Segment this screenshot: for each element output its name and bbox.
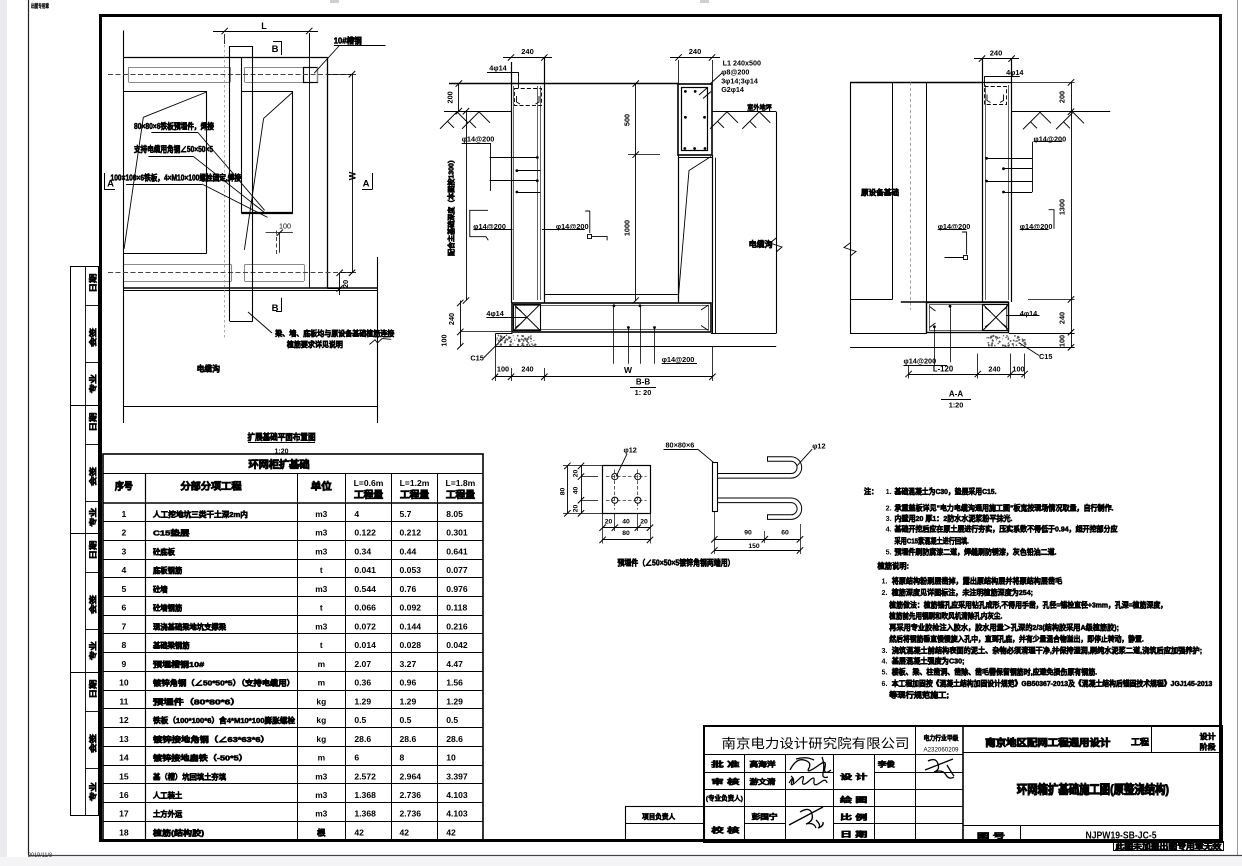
svg-text:支持电缆用角钢∠50×50×5: 支持电缆用角钢∠50×50×5 <box>133 144 213 154</box>
old foundation bottom <box>850 299 892 301</box>
svg-text:会签: 会签 <box>87 327 97 347</box>
svg-text:kg: kg <box>316 715 326 725</box>
hole phi12 <box>612 474 618 480</box>
ground line left <box>444 111 511 113</box>
svg-text:2.572: 2.572 <box>354 771 376 781</box>
hole phi12 <box>612 497 618 503</box>
svg-text:基（槽）坑回填土夯填: 基（槽）坑回填土夯填 <box>152 771 226 781</box>
trench wall inner line <box>715 158 717 334</box>
svg-text:基础梁钢筋: 基础梁钢筋 <box>152 640 190 650</box>
svg-text:0.072: 0.072 <box>354 621 376 631</box>
dimension 100 (plan) <box>266 232 293 234</box>
svg-text:17: 17 <box>119 809 129 819</box>
svg-text:日期: 日期 <box>87 679 97 699</box>
svg-text:0.641: 0.641 <box>446 546 468 556</box>
svg-text:将原结构粉刷层凿掉，露出原结构层并将原结构层凿毛: 将原结构粉刷层凿掉，露出原结构层并将原结构层凿毛 <box>892 575 1063 585</box>
svg-text:植筋要求详见说明: 植筋要求详见说明 <box>286 340 343 349</box>
svg-text:1.29: 1.29 <box>354 696 371 706</box>
ground line right <box>712 111 776 113</box>
left wall <box>511 62 513 303</box>
ground line right <box>1012 111 1111 113</box>
svg-text:0.092: 0.092 <box>400 603 422 613</box>
svg-text:m3: m3 <box>315 546 327 556</box>
right wall below beam <box>678 155 680 303</box>
top anchor bar with hook <box>717 457 801 478</box>
svg-text:90: 90 <box>744 529 752 536</box>
svg-text:采用C15素混凝土进行回填.: 采用C15素混凝土进行回填. <box>894 535 969 545</box>
sig design <box>925 759 954 778</box>
svg-text:28.6: 28.6 <box>354 734 371 744</box>
svg-text:日期: 日期 <box>87 412 97 432</box>
svg-text:李俊: 李俊 <box>877 760 896 769</box>
svg-text:0.014: 0.014 <box>354 640 376 650</box>
svg-text:13: 13 <box>119 734 129 744</box>
channel steel end plate (black) <box>304 68 318 83</box>
svg-text:比 例: 比 例 <box>840 813 867 822</box>
svg-text:4: 4 <box>122 565 127 575</box>
wall top line <box>449 83 679 85</box>
svg-text:80: 80 <box>560 488 567 496</box>
svg-text:9: 9 <box>122 659 127 669</box>
svg-text:电缆沟: 电缆沟 <box>197 363 221 373</box>
base slab B-B <box>512 303 711 332</box>
bar bend mark <box>585 211 607 240</box>
svg-text:0.301: 0.301 <box>446 528 468 538</box>
svg-text:5: 5 <box>122 584 127 594</box>
svg-text:20: 20 <box>605 519 613 526</box>
inner wall line right <box>309 33 311 289</box>
svg-text:基础开挖后应在原土层进行夯实，压实系数不得低于0.94，超开: 基础开挖后应在原土层进行夯实，压实系数不得低于0.94，超开挖部分应 <box>894 524 1118 534</box>
support angle steel (thick) <box>241 212 293 214</box>
svg-text:L: L <box>261 21 267 31</box>
page left gray strip <box>0 0 7 866</box>
dims 240/100 left of base <box>460 301 462 347</box>
svg-text:植筋做法：植筋锚孔应采用钻孔成形,不得用手凿，孔径=锚栓直径: 植筋做法：植筋锚孔应采用钻孔成形,不得用手凿，孔径=锚栓直径+3mm，孔深=植筋… <box>888 600 1167 610</box>
beam section X-box A-A <box>983 305 1009 331</box>
dimension W (right) <box>352 74 354 273</box>
svg-text:1: 20: 1: 20 <box>635 388 652 397</box>
svg-text:工程量: 工程量 <box>446 489 476 500</box>
svg-text:0.544: 0.544 <box>354 584 376 594</box>
svg-text:1.29: 1.29 <box>400 696 417 706</box>
svg-text:1.: 1. <box>882 576 888 585</box>
svg-text:原设备基础: 原设备基础 <box>861 187 899 197</box>
svg-text:200: 200 <box>1058 91 1067 103</box>
svg-text:1:20: 1:20 <box>949 401 964 410</box>
svg-text:φ14@200: φ14@200 <box>904 357 937 366</box>
svg-text:4φ14: 4φ14 <box>489 64 507 73</box>
sign-off column <box>71 267 99 816</box>
bottom wall centerline <box>108 272 351 274</box>
svg-text:240: 240 <box>988 364 1000 373</box>
svg-text:南京地区配网工程通用设计: 南京地区配网工程通用设计 <box>985 736 1110 749</box>
channel inner end line <box>317 67 319 82</box>
svg-text:5.7: 5.7 <box>400 509 412 519</box>
svg-text:3.397: 3.397 <box>446 771 468 781</box>
svg-text:6: 6 <box>354 753 359 763</box>
svg-text:8.05: 8.05 <box>446 509 463 519</box>
back wall bottom seen through opening <box>544 294 677 296</box>
beam section X-box <box>514 305 541 331</box>
svg-text:扩展基础平面布置图: 扩展基础平面布置图 <box>248 432 316 442</box>
svg-text:镀锌接地扁铁（-50*5）: 镀锌接地扁铁（-50*5） <box>153 753 248 763</box>
svg-text:4.103: 4.103 <box>446 790 468 800</box>
svg-text:0.34: 0.34 <box>354 546 371 556</box>
svg-text:C15: C15 <box>470 354 483 363</box>
dim 1300 <box>1071 112 1073 300</box>
svg-text:L=1.2m: L=1.2m <box>400 478 430 488</box>
svg-text:L=1.8m: L=1.8m <box>445 478 475 488</box>
svg-text:工程量: 工程量 <box>400 489 430 500</box>
svg-text:分部分项工程: 分部分项工程 <box>181 481 242 493</box>
svg-text:0.212: 0.212 <box>400 528 422 538</box>
beam L1 section <box>678 84 712 155</box>
svg-text:楼板、梁、柱凿洞、凿除、凿毛需保留钢筋时,应避免损伤原有钢筋: 楼板、梁、柱凿洞、凿除、凿毛需保留钢筋时,应避免损伤原有钢筋. <box>892 667 1097 677</box>
svg-text:室外地坪: 室外地坪 <box>747 103 772 112</box>
svg-text:植筋说明:: 植筋说明: <box>876 562 909 571</box>
hole phi12 <box>635 474 641 480</box>
svg-text:游文清: 游文清 <box>750 777 776 786</box>
beam inner segment top band <box>241 58 243 91</box>
svg-text:240: 240 <box>521 365 533 374</box>
svg-text:彭国宁: 彭国宁 <box>752 812 778 821</box>
dim 200 right <box>1071 82 1073 111</box>
top line <box>850 82 982 84</box>
svg-text:1.: 1. <box>886 487 892 496</box>
svg-text:4φ14: 4φ14 <box>1006 68 1024 77</box>
svg-text:预埋槽钢10#: 预埋槽钢10# <box>153 659 205 669</box>
svg-text:20: 20 <box>640 519 648 526</box>
svg-text:3.: 3. <box>882 646 888 655</box>
svg-text:2.736: 2.736 <box>400 809 422 819</box>
svg-text:240: 240 <box>1058 312 1067 324</box>
svg-text:会签: 会签 <box>87 733 97 753</box>
svg-text:42: 42 <box>446 827 456 837</box>
svg-text:12: 12 <box>119 715 129 725</box>
svg-text:C15: C15 <box>1039 352 1052 361</box>
svg-text:图 号: 图 号 <box>977 831 1005 840</box>
dim line 1300 depth <box>466 111 468 300</box>
svg-text:0.96: 0.96 <box>400 678 417 688</box>
svg-text:内壁用20 厚1：2防水水泥浆粉平抹光.: 内壁用20 厚1：2防水水泥浆粉平抹光. <box>895 513 1013 523</box>
svg-text:G2φ14: G2φ14 <box>721 85 744 94</box>
svg-text:240: 240 <box>447 313 456 325</box>
dims 240/100 right <box>1071 299 1073 347</box>
svg-text:20: 20 <box>341 280 350 288</box>
main divider <box>962 727 964 842</box>
svg-text:m: m <box>318 678 325 688</box>
svg-text:专业: 专业 <box>87 507 97 527</box>
svg-text:80×80×6: 80×80×6 <box>666 441 695 450</box>
plate dims left <box>581 466 583 513</box>
svg-text:日 期: 日 期 <box>840 830 867 839</box>
svg-text:植筋(结构胶): 植筋(结构胶) <box>152 827 205 837</box>
new wall A-A <box>982 59 984 302</box>
break mark old fnd <box>844 243 856 256</box>
svg-text:42: 42 <box>400 827 410 837</box>
dimension 20 (bottom-right) <box>337 285 343 291</box>
top wall centerline <box>108 74 351 76</box>
svg-text:L=0.6m: L=0.6m <box>354 478 384 488</box>
trench left wall line <box>123 31 125 424</box>
trench right wall line <box>377 257 379 423</box>
svg-text:环网箱扩基础施工图(原整浇结构): 环网箱扩基础施工图(原整浇结构) <box>1017 783 1169 797</box>
svg-text:预埋件（80*80*6）: 预埋件（80*80*6） <box>153 696 241 706</box>
anchorage dashed box <box>515 89 542 106</box>
svg-text:L1 240x500: L1 240x500 <box>723 59 761 68</box>
svg-text:3: 3 <box>122 546 127 556</box>
hook ticks <box>985 308 1007 328</box>
sig check <box>789 807 823 828</box>
svg-text:砼墙钢筋: 砼墙钢筋 <box>153 603 183 613</box>
svg-text:φ12: φ12 <box>624 446 637 455</box>
svg-text:42: 42 <box>354 827 364 837</box>
svg-text:4.: 4. <box>882 657 888 666</box>
bracket <box>470 210 489 240</box>
svg-text:然后将钢筋垂直慢慢旋入孔中，直到孔底，并有少量混合物溢出，即: 然后将钢筋垂直慢慢旋入孔中，直到孔底，并有少量混合物溢出，即停止转动，静置. <box>889 634 1144 644</box>
svg-text:设计: 设计 <box>1200 731 1216 741</box>
svg-text:4: 4 <box>354 509 359 519</box>
svg-text:11: 11 <box>119 696 128 706</box>
svg-text:会签: 会签 <box>87 466 97 486</box>
svg-text:W: W <box>624 365 633 375</box>
svg-text:0.5: 0.5 <box>446 715 458 725</box>
svg-text:m3: m3 <box>315 528 327 538</box>
svg-text:此图未加盖出图专用章无效: 此图未加盖出图专用章无效 <box>1115 842 1222 851</box>
svg-text:镀锌接地角钢（∠63*63*6）: 镀锌接地角钢（∠63*63*6） <box>153 734 270 744</box>
inner pit edge (right region) <box>242 91 293 93</box>
svg-text:15: 15 <box>119 771 129 781</box>
svg-text:0.053: 0.053 <box>400 565 422 575</box>
svg-text:A-A: A-A <box>949 390 963 399</box>
svg-text:B-B: B-B <box>636 378 650 387</box>
svg-text:100×100×6铁板，4×M10×100螺栓固定,焊接: 100×100×6铁板，4×M10×100螺栓固定,焊接 <box>111 173 242 183</box>
svg-text:底板钢筋: 底板钢筋 <box>153 565 183 575</box>
svg-text:2.736: 2.736 <box>400 790 422 800</box>
sig review <box>789 776 827 785</box>
trench bottom line <box>123 406 377 408</box>
svg-text:2: 2 <box>122 528 127 538</box>
svg-text:4φ14: 4φ14 <box>1020 309 1038 318</box>
svg-text:40: 40 <box>622 519 630 526</box>
fold/break lines left <box>143 92 206 117</box>
svg-text:2.964: 2.964 <box>400 771 422 781</box>
svg-text:φ12: φ12 <box>812 442 825 451</box>
section B cut dashed line <box>224 40 226 340</box>
svg-text:0.36: 0.36 <box>354 678 371 688</box>
svg-text:t: t <box>320 565 323 575</box>
svg-text:B: B <box>272 303 279 314</box>
svg-text:(专业负责人): (专业负责人) <box>706 794 743 803</box>
svg-text:再采用专业胶枪注入胶水，胶水用量＞孔深的2/3(结构胶采用A: 再采用专业胶枪注入胶水，胶水用量＞孔深的2/3(结构胶采用A级植筋胶); <box>889 622 1119 632</box>
svg-text:日期: 日期 <box>87 273 97 293</box>
pit rebar leaders <box>949 305 952 308</box>
sig approve <box>790 757 831 778</box>
embedded part detail: plate face view <box>603 466 651 514</box>
dim 500/1000 <box>635 84 637 301</box>
svg-text:预埋件刷防腐漆二道，焊缝刷防锈漆，灰色铅油二道.: 预埋件刷防腐漆二道，焊缝刷防锈漆，灰色铅油二道. <box>895 547 1057 557</box>
channel steel top band (grey) <box>129 67 230 69</box>
svg-text:注：: 注： <box>864 487 878 496</box>
svg-text:南京电力设计研究院有限公司: 南京电力设计研究院有限公司 <box>722 736 910 751</box>
dashed centerlines through holes <box>606 476 647 478</box>
svg-text:4.103: 4.103 <box>446 809 468 819</box>
bolt centerline dashed <box>276 231 278 255</box>
svg-text:0.76: 0.76 <box>400 584 417 594</box>
svg-text:240: 240 <box>689 47 702 56</box>
svg-text:NJPW19-SB-JC-5: NJPW19-SB-JC-5 <box>1086 830 1157 841</box>
company row <box>705 754 963 756</box>
svg-text:浇筑混凝土前结构表面的泥土、杂物必须清理干净,并保持湿润,刷: 浇筑混凝土前结构表面的泥土、杂物必须清理干净,并保持湿润,刷纯水泥浆二道,浇筑后… <box>892 645 1202 655</box>
dim 200 left <box>458 84 460 112</box>
svg-text:环网柜扩基础: 环网柜扩基础 <box>249 458 310 471</box>
svg-text:0.028: 0.028 <box>400 640 422 650</box>
svg-text:2.: 2. <box>886 503 892 512</box>
C15 bed <box>496 333 513 335</box>
svg-text:绘 图: 绘 图 <box>840 795 867 804</box>
svg-text:100: 100 <box>279 222 291 231</box>
svg-text:m3: m3 <box>315 771 327 781</box>
paper right edge <box>1237 0 1239 856</box>
svg-text:配合主基础深度（本图按1300）: 配合主基础深度（本图按1300） <box>447 156 456 256</box>
svg-text:B: B <box>272 44 279 55</box>
plate dims bottom <box>603 527 650 529</box>
svg-text:梁、墙、底板均与原设备基础植筋连接: 梁、墙、底板均与原设备基础植筋连接 <box>274 329 395 338</box>
title block <box>704 726 1222 842</box>
svg-text:0.976: 0.976 <box>446 584 468 594</box>
svg-text:1.368: 1.368 <box>354 809 376 819</box>
svg-text:8: 8 <box>122 640 127 650</box>
dimension L (top) <box>213 31 318 33</box>
svg-text:A: A <box>363 179 370 190</box>
svg-text:28.6: 28.6 <box>446 734 463 744</box>
svg-text:0.144: 0.144 <box>400 621 422 631</box>
svg-text:φ14@200: φ14@200 <box>662 355 695 364</box>
svg-text:1300: 1300 <box>1058 199 1067 215</box>
paper left edge <box>28 0 30 856</box>
svg-text:砼墙: 砼墙 <box>153 584 168 594</box>
svg-text:日期: 日期 <box>87 540 97 560</box>
svg-text:100: 100 <box>1058 335 1067 347</box>
svg-text:100: 100 <box>440 334 449 346</box>
svg-text:m3: m3 <box>315 790 327 800</box>
svg-text:0.216: 0.216 <box>446 621 468 631</box>
svg-text:16: 16 <box>119 790 129 800</box>
svg-text:6.: 6. <box>882 679 888 688</box>
svg-text:t: t <box>320 603 323 613</box>
svg-text:电力行业甲级: 电力行业甲级 <box>924 733 960 742</box>
embedded part side view: plate <box>713 463 718 512</box>
svg-text:会签: 会签 <box>87 594 97 614</box>
svg-text:1.368: 1.368 <box>354 790 376 800</box>
bottom dims L-120/240/100 <box>909 374 1025 376</box>
dim 240 top <box>974 58 1019 60</box>
svg-text:40: 40 <box>573 487 580 495</box>
svg-text:人工挖地坑三类干土深2m内: 人工挖地坑三类干土深2m内 <box>153 509 248 519</box>
svg-text:现浇基础梁地坑支撑梁: 现浇基础梁地坑支撑梁 <box>153 621 226 631</box>
svg-text:C15垫层: C15垫层 <box>153 528 190 538</box>
svg-text:200: 200 <box>446 91 455 103</box>
anchorage dashed box <box>985 87 1007 105</box>
svg-text:镀锌角钢（∠50*50*5）（支持电缆用）: 镀锌角钢（∠50*50*5）（支持电缆用） <box>153 678 295 688</box>
svg-text:工程: 工程 <box>1131 736 1149 747</box>
C15 speckle A-A <box>986 335 1026 348</box>
foundation beam strip <box>229 46 231 321</box>
svg-text:5.: 5. <box>886 548 892 557</box>
svg-text:28.6: 28.6 <box>400 734 417 744</box>
svg-text:专业: 专业 <box>87 782 97 802</box>
svg-text:植筋前先用钢刷和吹风机清除孔内灰尘.: 植筋前先用钢刷和吹风机清除孔内灰尘. <box>888 611 1002 621</box>
svg-text:铁板（100*100*6）含4*M10*100膨胀螺栓: 铁板（100*100*6）含4*M10*100膨胀螺栓 <box>153 715 295 725</box>
svg-text:A232060209: A232060209 <box>924 746 959 753</box>
svg-text:10: 10 <box>119 678 129 688</box>
svg-text:工程量: 工程量 <box>354 489 384 500</box>
svg-text:基础混凝土为C30，垫层采用C15.: 基础混凝土为C30，垫层采用C15. <box>894 486 997 496</box>
hook marks <box>517 96 540 104</box>
break mark <box>770 238 782 252</box>
svg-text:0.042: 0.042 <box>446 640 468 650</box>
svg-text:0.5: 0.5 <box>354 715 366 725</box>
svg-text:3φ14;3φ14: 3φ14;3φ14 <box>721 76 758 85</box>
trench floor / C15 A-A <box>850 333 927 335</box>
svg-text:2.07: 2.07 <box>354 659 371 669</box>
quantities table <box>103 454 483 840</box>
channel steel bottom band (grey) <box>124 264 232 266</box>
svg-text:基层混凝土强度为C30;: 基层混凝土强度为C30; <box>891 656 965 666</box>
svg-text:4φ14: 4φ14 <box>486 309 504 318</box>
svg-text:本工程加固按《混凝土结构加固设计规范》GB50367-201: 本工程加固按《混凝土结构加固设计规范》GB50367-2013及《混凝土结构后锚… <box>891 678 1213 688</box>
svg-text:电缆沟: 电缆沟 <box>749 239 773 249</box>
svg-text:10: 10 <box>446 753 456 763</box>
dim 240 above L1 <box>670 57 720 59</box>
svg-text:φ14@200: φ14@200 <box>462 135 495 144</box>
svg-text:校 核: 校 核 <box>711 825 739 834</box>
svg-text:2.: 2. <box>882 588 888 597</box>
svg-text:m: m <box>318 659 325 669</box>
svg-text:7: 7 <box>122 621 127 631</box>
bar section square <box>588 235 592 239</box>
trench far wall <box>776 112 778 334</box>
svg-text:m: m <box>318 753 325 763</box>
svg-text:人工装土: 人工装土 <box>153 790 183 800</box>
svg-text:m3: m3 <box>315 809 327 819</box>
svg-text:5.: 5. <box>882 668 888 677</box>
top level extension <box>1012 82 1075 84</box>
svg-text:φ8@200: φ8@200 <box>721 68 749 77</box>
svg-text:设 计: 设 计 <box>840 772 867 781</box>
svg-text:60: 60 <box>781 529 789 536</box>
svg-text:0.041: 0.041 <box>354 565 376 575</box>
svg-text:20: 20 <box>573 505 580 513</box>
svg-text:2019/11/8: 2019/11/8 <box>28 853 53 859</box>
svg-text:出图专用章: 出图专用章 <box>31 2 49 10</box>
svg-text:单位: 单位 <box>311 481 332 493</box>
svg-text:3.27: 3.27 <box>400 659 417 669</box>
L1 leader <box>710 73 722 84</box>
break mark on trench line <box>369 339 391 345</box>
svg-text:根: 根 <box>317 827 326 837</box>
fold/break lines right <box>264 92 293 118</box>
svg-text:0.5: 0.5 <box>400 715 412 725</box>
bottom anchor bar with hook <box>717 498 801 519</box>
svg-text:80: 80 <box>622 530 630 537</box>
svg-text:植筋深度见详图标注，未注明植筋深度为254;: 植筋深度见详图标注，未注明植筋深度为254; <box>891 587 1033 597</box>
svg-text:审 核: 审 核 <box>711 777 739 786</box>
svg-text:1000: 1000 <box>623 220 632 236</box>
svg-text:3.: 3. <box>886 514 892 523</box>
svg-text:砼底板: 砼底板 <box>153 546 175 556</box>
svg-text:m3: m3 <box>315 509 327 519</box>
